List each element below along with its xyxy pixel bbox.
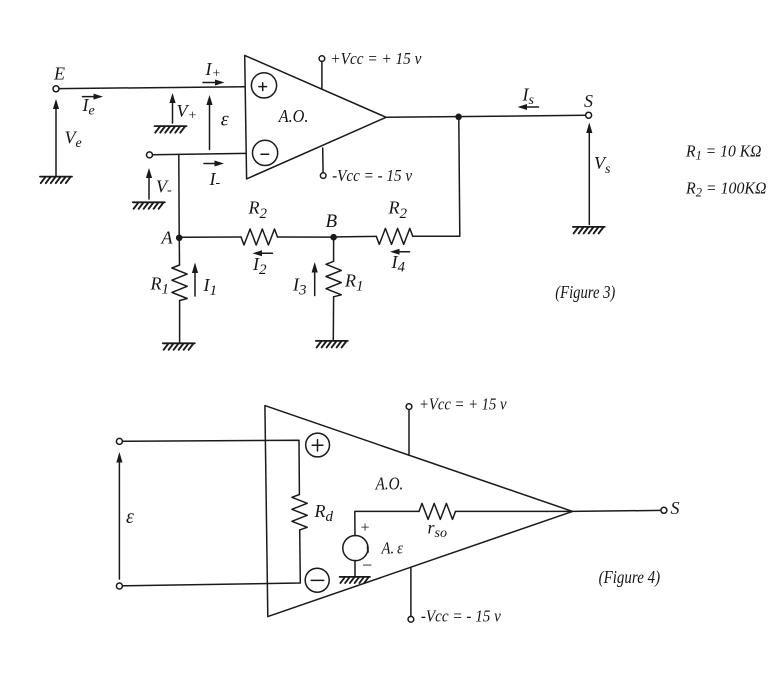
- ground below V-: [133, 202, 165, 209]
- arrow I3: [312, 262, 318, 296]
- op-amp U1 plus input circle: [251, 73, 276, 98]
- wire junction down to feedback corner: [413, 118, 460, 236]
- svg-text:ε: ε: [126, 506, 134, 528]
- -Vcc terminal: [320, 148, 326, 178]
- op-amp U1 triangle: [245, 55, 386, 178]
- svg-text:+Vcc = + 15 v: +Vcc = + 15 v: [419, 395, 507, 414]
- resistor R2 left: [241, 229, 278, 245]
- svg-text:E: E: [53, 64, 65, 84]
- svg-text:I4: I4: [391, 252, 406, 276]
- arrow I-: [204, 161, 224, 167]
- wire E to op-amp + input: [59, 87, 245, 89]
- arrow I4: [390, 249, 410, 255]
- ground below Vs: [573, 227, 605, 234]
- resistor R1 left: [172, 265, 187, 301]
- svg-text:A.O.: A.O.: [375, 474, 404, 494]
- svg-text:S: S: [671, 498, 680, 518]
- +Vcc terminal fig4: [406, 404, 412, 456]
- wire R1 right to ground: [332, 297, 334, 340]
- node S terminal fig4: [661, 507, 667, 513]
- minus input circle fig4: [305, 568, 329, 592]
- ground below V+: [155, 126, 187, 133]
- svg-text:S: S: [584, 91, 593, 111]
- source A.eps circle: [343, 536, 368, 561]
- svg-text:+Vcc = + 15 v: +Vcc = + 15 v: [330, 49, 422, 68]
- svg-text:(Figure 3): (Figure 3): [555, 282, 615, 303]
- svg-text:-Vcc = - 15 v: -Vcc = - 15 v: [421, 607, 502, 626]
- svg-text:A. ε: A. ε: [381, 539, 404, 558]
- node B dot: [330, 234, 337, 241]
- ground below R1 right: [316, 341, 348, 348]
- svg-text:ε: ε: [221, 109, 229, 131]
- wire source to ground: [354, 560, 356, 577]
- wire R2 left to node A: [182, 236, 241, 238]
- arrow Ve: [53, 99, 59, 176]
- wire Rd down and back to bottom terminal: [122, 530, 300, 586]
- wire rso to apex and out to S: [456, 510, 661, 511]
- ground below source: [340, 577, 370, 583]
- svg-text:Rd: Rd: [314, 501, 334, 525]
- svg-text:B: B: [326, 211, 338, 232]
- svg-text:-Vcc = - 15 v: -Vcc = - 15 v: [332, 166, 413, 185]
- svg-text:R1 = 10 KΩ: R1 = 10 KΩ: [685, 142, 762, 163]
- wire node B to R2 right: [337, 235, 376, 238]
- resistor R2 right (feedback): [376, 228, 413, 244]
- svg-text:R1: R1: [344, 271, 364, 295]
- wire minus-input down to node A: [178, 155, 180, 238]
- wire op-amp output to node S: [386, 115, 585, 117]
- svg-text:I-: I-: [209, 169, 221, 191]
- svg-text:rso: rso: [428, 518, 447, 542]
- svg-text:R2: R2: [248, 198, 268, 223]
- wire node B down to R1 right: [333, 241, 335, 262]
- arrow Vs: [586, 123, 592, 225]
- svg-text:I+: I+: [205, 59, 221, 82]
- op-amp U1 minus input circle: [253, 140, 278, 165]
- arrow epsilon: [206, 95, 212, 150]
- resistor rso: [419, 503, 456, 519]
- svg-text:I2: I2: [252, 254, 267, 278]
- arrow Ie: [83, 94, 104, 100]
- svg-text:+: +: [360, 520, 371, 537]
- svg-text:I1: I1: [203, 275, 218, 299]
- arrow I2: [253, 250, 273, 256]
- wire node A down to R1 left: [178, 241, 180, 265]
- svg-text:Ie: Ie: [82, 95, 95, 119]
- svg-text:I3: I3: [292, 275, 307, 299]
- arrow I1: [192, 263, 198, 297]
- svg-text:A.O.: A.O.: [278, 106, 309, 126]
- svg-text:Is: Is: [522, 85, 535, 109]
- resistor R1 right: [326, 261, 341, 297]
- svg-text:V-: V-: [156, 177, 172, 199]
- arrow epsilon fig4: [116, 452, 122, 579]
- resistor Rd: [292, 495, 307, 530]
- wire minus terminal to op-amp - input: [153, 153, 247, 154]
- svg-text:−: −: [361, 555, 373, 575]
- op-amp model triangle fig4: [265, 406, 573, 617]
- +Vcc terminal: [319, 56, 325, 89]
- svg-text:R2 = 100KΩ: R2 = 100KΩ: [685, 179, 767, 200]
- svg-text:V+: V+: [177, 101, 197, 124]
- plus input circle fig4: [306, 433, 330, 457]
- ground below Ve: [40, 177, 72, 184]
- arrow V-: [146, 168, 152, 199]
- svg-text:A: A: [161, 228, 174, 248]
- terminal top-left fig4: [116, 438, 122, 444]
- junction dot on output: [455, 114, 462, 121]
- wire R2 left to node B: [278, 236, 331, 238]
- arrow I+: [203, 80, 225, 86]
- node A dot: [176, 235, 183, 242]
- ground below R1 left: [163, 343, 195, 350]
- -Vcc terminal fig4: [408, 567, 414, 622]
- node minus-input terminal: [147, 152, 153, 158]
- svg-text:R2: R2: [388, 198, 408, 223]
- svg-text:Vs: Vs: [594, 153, 611, 177]
- node E terminal: [53, 86, 59, 92]
- terminal bottom-left fig4: [116, 583, 122, 589]
- wire top terminal to Rd corner: [122, 440, 299, 494]
- wire source up to rso: [355, 511, 419, 536]
- wire R1 left to ground: [179, 301, 181, 344]
- svg-text:R1: R1: [150, 274, 170, 298]
- arrow Is: [518, 104, 539, 110]
- arrow V+: [169, 93, 175, 123]
- node S terminal: [586, 112, 592, 118]
- svg-text:(Figure 4): (Figure 4): [599, 567, 661, 588]
- svg-text:Ve: Ve: [65, 128, 82, 152]
